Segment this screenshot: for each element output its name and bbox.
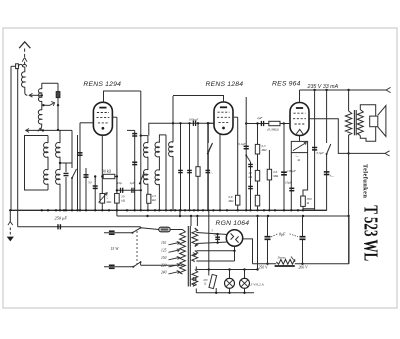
wire grid lead tube2 switch [207,122,214,210]
wire filament leads [196,246,235,261]
variometer arrow [42,102,54,107]
svg-text:110: 110 [161,241,166,245]
antenna trimmer block [16,64,19,69]
fuse F1 [141,227,183,232]
filter choke Dr [275,255,295,266]
svg-text:100μμF: 100μμF [189,118,199,122]
resistor R8 03M [268,121,285,132]
band filter coil L5 [44,136,48,191]
wire tube3 grid lead [284,123,290,125]
electrolytic C19 8uF [265,216,271,264]
switch S2 [139,172,144,184]
capacitor C16 7000 [324,172,334,178]
resistor R15 100 [203,210,216,292]
transformer T1 primary [180,230,186,275]
tuning coil L4 lower [38,101,41,130]
wire tube2 top cap rail [173,96,224,103]
label 8uF [271,231,298,237]
switch S3 [207,144,213,155]
speaker LS1 [360,105,386,142]
svg-text:15 W: 15 W [111,247,120,251]
svg-text:240: 240 [161,270,167,274]
band filter coil L6 [56,130,60,210]
resistor R14 300 [301,196,315,209]
svg-text:MΩ: MΩ [105,200,112,204]
svg-text:100: 100 [203,279,208,282]
antenna coil L2 [21,67,27,96]
svg-text:MΩ: MΩ [272,174,279,178]
band filter frame [25,136,49,191]
line 250V output [253,263,350,270]
trimmer capacitor C1 [59,162,72,211]
IF transformer primary L7 [140,134,148,210]
svg-text:MΩ: MΩ [261,148,268,152]
stub center taps [191,216,197,226]
capacitor C3 [84,168,89,210]
trimmer capacitor C9 [187,122,192,210]
wire column x134 with caps [127,130,137,210]
wire speaker return [349,152,385,154]
lamp LA1 [225,270,235,293]
trimmer capacitor C10 [206,122,214,210]
wire grid feed with arrow [29,93,43,97]
resistor R11 30k [255,195,259,206]
primary taps [161,241,180,274]
wire coil top link [42,82,58,84]
capacitor C12 [248,162,253,210]
switch linkage dashed [136,231,138,264]
capacitor C13 2uF [257,116,264,126]
svg-text:Ω: Ω [204,283,206,286]
grid capacitor C2 column [78,123,83,211]
rectifier U4 RGN1064 [226,230,242,246]
svg-text:T 523 WL: T 523 WL [360,205,382,261]
antenna symbol [19,42,30,57]
chassis bus [9,209,327,211]
stub bus to line2 [179,209,181,216]
resistor R1 dark [56,83,60,129]
resistor R6 25k [147,194,157,203]
wire column x140 anode rail drop [140,91,142,210]
electrolytic C20 8uF [300,216,306,264]
lamp bus lower [196,289,254,294]
mains lead upper [104,231,133,234]
wire plate leads [196,233,227,244]
resistor R2 30k [101,170,118,179]
resistor R12 06M [267,150,279,210]
oscillator coil L9 [169,96,173,210]
resistor R4 50k [115,177,126,211]
wire mains lower run [141,264,183,266]
switch S1 [71,130,77,210]
wire tube1 screen lead [112,117,117,216]
svg-text:220: 220 [161,263,167,267]
svg-text:2μF: 2μF [257,116,263,120]
svg-text:30 kΩ: 30 kΩ [102,170,111,174]
capacitor C11 01uF [238,142,249,149]
potentiometer R3 [99,193,112,211]
antenna coupling coil L1 [11,62,26,67]
switch S5 column [326,90,331,211]
capacitor C18 with label [212,229,220,244]
field coil L10 [345,90,351,264]
mains lead lower [104,265,133,268]
capacitor C15 05uF column [312,90,324,211]
transformer T1 HT winding [192,228,198,247]
antenna plug connector [22,58,27,62]
series capacitor C7 100pF [189,118,199,126]
wire left antenna down-lead [10,66,12,210]
switch S4 [245,154,250,162]
output transformer T2 [354,110,363,136]
svg-text:Dross.: Dross. [277,255,287,259]
svg-text:10μ: 10μ [117,181,122,185]
resistor R10 20k [249,170,260,181]
switch S7 lower [132,261,141,268]
electrolytic C14 100uF [281,124,297,211]
wire grid lead tube1 [80,122,94,124]
svg-text:⁄₅: ⁄₅ [106,195,109,199]
trimmer capacitor C8 [178,122,183,210]
wire rail2 horizontal 123 [149,122,214,136]
wire tube1 top cap lead [104,91,141,102]
svg-text:235 V 33 mA: 235 V 33 mA [307,84,339,90]
tube U1 RENS1294 [93,102,112,135]
wire tube3 anode lead [309,119,349,154]
svg-text:MΩ: MΩ [228,199,235,203]
svg-text:RENS 1294: RENS 1294 [83,81,121,88]
wire B+ output [243,239,253,264]
transformer T1 filament winding [192,251,198,262]
svg-text:⁄₄: ⁄₄ [210,170,213,174]
wire bus jog right [315,210,327,212]
wire tube3 top lead [299,90,301,103]
tube U2 RENS1284 [214,102,233,135]
svg-text:RENS 1284: RENS 1284 [206,81,244,88]
filament rheostat R13 [291,136,307,162]
resistor R9 03M [255,122,267,210]
svg-text:150: 150 [161,256,167,260]
tuning coil L3 upper [38,83,41,101]
terminal fork top right [386,87,391,92]
wire rheostat right column [303,153,308,196]
svg-text:8μF: 8μF [279,231,286,236]
svg-text:250 μF: 250 μF [55,215,68,220]
svg-text:RGN 1064: RGN 1064 [216,220,250,227]
svg-text:260 V: 260 V [299,266,309,270]
svg-text:50: 50 [88,180,92,184]
wire rail right segment [246,123,290,125]
wire tube2 cathode column [219,135,221,211]
IF transformer secondary L8 [155,135,166,210]
switch S6 upper [132,227,142,234]
svg-text:RES 964: RES 964 [272,80,301,87]
coupling capacitors C5 C6 [116,181,142,193]
wire top rail 235V [300,89,387,91]
lamp bus upper [196,216,258,271]
wire tube1 cathode column [101,135,103,193]
capacitor C4 50pF [88,175,98,210]
svg-text:Telefunken: Telefunken [361,164,368,198]
ground symbol [7,210,14,241]
wire column x77 [77,135,79,210]
tube U3 RES964 [290,103,309,136]
lamp LA2 [240,270,250,293]
svg-text:125: 125 [161,249,167,253]
svg-text:100: 100 [214,234,219,237]
wire lower link with arrow [26,128,72,132]
svg-text:100μF: 100μF [287,169,297,173]
resistor R5 [196,122,200,210]
transformer T1 lamp winding [192,270,198,287]
line2 secondary bus [117,215,349,264]
line3 mains-coupling wire [18,226,141,228]
resistor R7 08M [228,195,240,210]
svg-text:250 V: 250 V [259,266,269,270]
wire rheostat left column [285,153,294,211]
svg-text:1μF: 1μF [130,181,135,185]
terminal fork lower right [385,151,390,156]
wire column x246 [245,97,247,210]
wire second down-lead [17,69,19,227]
capacitor C17 250pF [55,215,68,229]
transformer T1 core [188,226,190,287]
svg-text:10μF: 10μF [285,180,292,184]
svg-text:7ₒₒₒ: 7ₒₒₒ [330,174,334,178]
wire tube2 anode lead [234,117,238,195]
